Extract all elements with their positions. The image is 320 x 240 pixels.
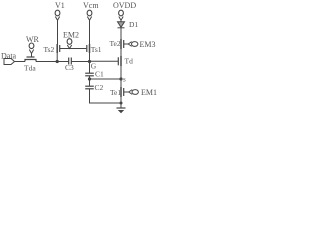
- svg-text:s: s: [123, 76, 126, 84]
- node G junction: [88, 60, 97, 71]
- wire node G down to C1: [89, 62, 91, 74]
- transistor Ts2: [44, 44, 60, 54]
- ground: [117, 108, 126, 113]
- svg-text:OVDD: OVDD: [113, 1, 136, 10]
- terminal WR: [26, 35, 40, 54]
- svg-text:C2: C2: [95, 83, 104, 92]
- wire EM2 gate bus: [60, 48, 87, 50]
- svg-text:C1: C1: [95, 69, 104, 78]
- svg-text:Ts2: Ts2: [44, 45, 55, 54]
- wire node S to Te1 drain: [120, 79, 122, 87]
- wire WR to Tda gate: [31, 54, 33, 58]
- diode D1: [118, 20, 139, 29]
- terminal V1: [55, 1, 65, 20]
- svg-text:WR: WR: [26, 35, 40, 44]
- svg-text:Td: Td: [125, 56, 134, 65]
- svg-text:D1: D1: [129, 20, 138, 29]
- wire Ts1 source to node G: [89, 53, 91, 62]
- svg-text:Tda: Tda: [24, 63, 36, 72]
- terminal EM3: [128, 40, 155, 49]
- wire Te2 source to Td drain: [120, 49, 122, 56]
- capacitor C3: [65, 58, 74, 73]
- node junction Ts2 source on data wire: [56, 60, 59, 63]
- capacitor C1: [85, 69, 104, 78]
- terminal Data: [1, 52, 17, 65]
- wire Te1 source to ground: [120, 97, 122, 108]
- wire C3 to node G: [71, 61, 89, 63]
- svg-text:C3: C3: [65, 63, 74, 72]
- node junction ground rail: [120, 102, 123, 105]
- svg-text:EM1: EM1: [141, 88, 157, 97]
- wire D1 cathode to Te2 drain: [120, 28, 122, 39]
- transistor Tda: [24, 57, 36, 72]
- node mid junction between C1 C2: [88, 77, 91, 80]
- transistor Td: [118, 56, 133, 66]
- svg-text:V1: V1: [55, 1, 65, 10]
- svg-text:EM2: EM2: [63, 31, 79, 40]
- wire Tda drain to C3: [36, 61, 69, 63]
- svg-text:Vcm: Vcm: [83, 1, 99, 10]
- wire V1 to Ts2 drain: [57, 20, 59, 44]
- terminal OVDD: [113, 1, 136, 20]
- svg-text:Te1: Te1: [110, 88, 121, 97]
- svg-text:Te2: Te2: [110, 39, 121, 48]
- transistor Te2: [110, 39, 129, 49]
- wire Ts2 source down: [56, 53, 58, 62]
- transistor Ts1: [87, 44, 102, 54]
- terminal Vcm: [83, 1, 99, 20]
- transistor Te1: [110, 87, 129, 97]
- node S junction: [119, 76, 126, 84]
- capacitor C2: [85, 83, 103, 92]
- svg-text:Ts1: Ts1: [91, 45, 102, 54]
- svg-text:Data: Data: [1, 52, 17, 61]
- terminal EM2: [63, 31, 79, 49]
- wire mid node to node S: [90, 78, 122, 80]
- wire C2 bottom to ground rail: [90, 89, 122, 103]
- wire Vcm to Ts1 drain: [89, 20, 91, 44]
- wire OVDD to D1 anode: [120, 20, 122, 22]
- svg-text:EM3: EM3: [140, 40, 156, 49]
- wire Td source to node S: [120, 66, 122, 79]
- wire C1 to mid node: [89, 76, 91, 86]
- terminal EM1: [129, 88, 157, 97]
- wire Data to Tda source: [15, 61, 26, 63]
- wire node G to Td gate: [90, 60, 119, 62]
